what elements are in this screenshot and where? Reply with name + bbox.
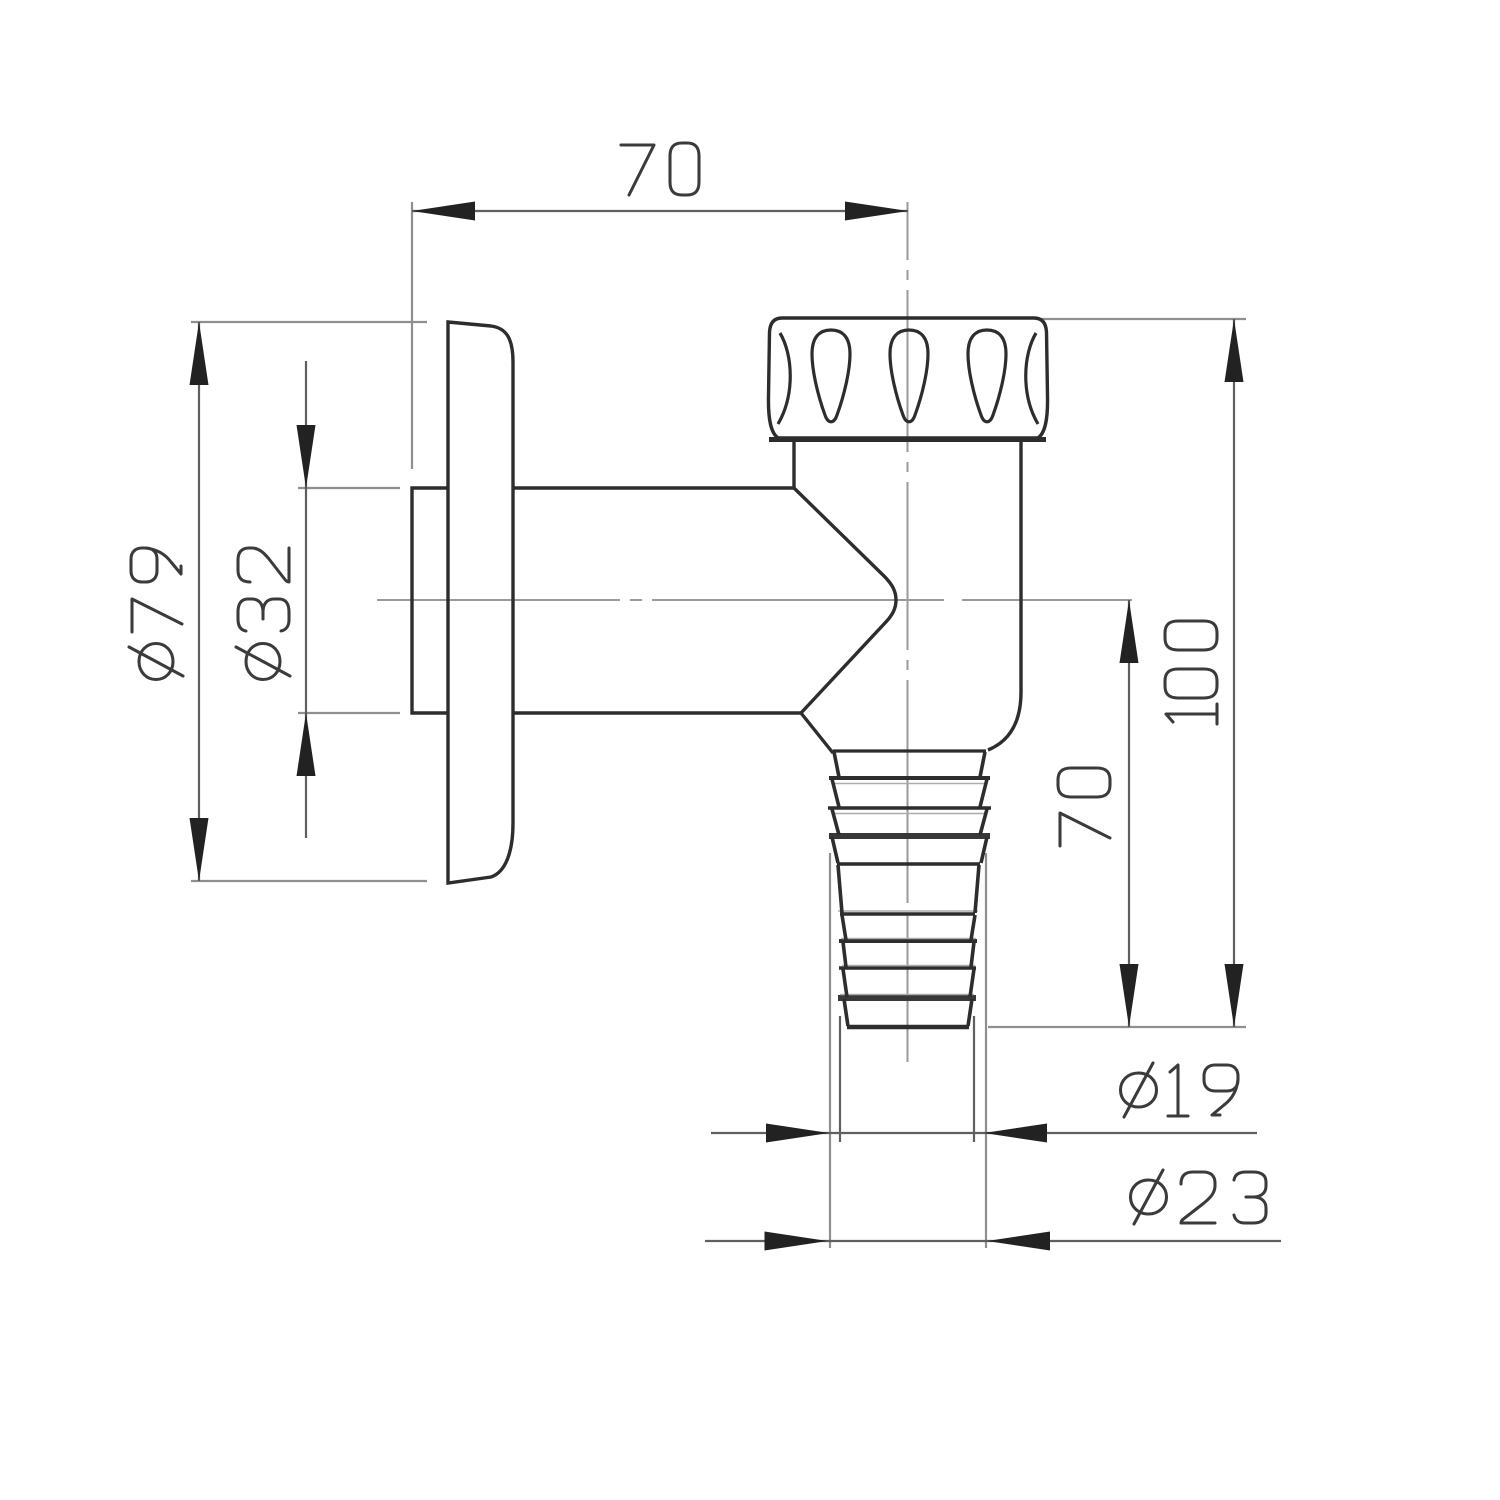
arrowhead 70 top left bbox=[412, 202, 475, 221]
arrowhead dia19 right bbox=[984, 1124, 1047, 1143]
arrowhead 70 top right bbox=[845, 202, 908, 221]
body left outline with nose bbox=[794, 488, 896, 713]
arrowhead 100 top bbox=[1225, 319, 1244, 382]
dimension text dia32 (left) bbox=[236, 548, 290, 680]
dimension text dia19 (bottom) bbox=[1121, 1063, 1239, 1117]
arrowhead dia19 left bbox=[766, 1124, 829, 1143]
barb ridge line y=968 bbox=[839, 966, 976, 969]
extension line: diameter 32 top bbox=[298, 487, 400, 489]
centerline vertical (tap axis) bbox=[907, 202, 909, 260]
wall flange (dia 79 plate) bbox=[448, 322, 513, 883]
arrowhead dia79 bottom bbox=[190, 818, 209, 881]
dimension text 70 (right) bbox=[1058, 768, 1110, 846]
extension line: diameter 79 top bbox=[191, 321, 427, 323]
barb ridge line y=941 bbox=[839, 939, 977, 943]
dimension line: 70 right bbox=[1128, 600, 1130, 1027]
barb ridge line y=864 bbox=[837, 862, 980, 866]
barb ridge line y=808 bbox=[828, 806, 991, 810]
cap knurl groove 3 bbox=[968, 330, 1006, 422]
cap knurl edge groove left bbox=[778, 333, 790, 424]
barb segment side walls 8 bbox=[843, 969, 847, 997]
arrowhead 100 bottom bbox=[1225, 964, 1244, 1027]
cap knurl groove 1 bbox=[812, 330, 850, 422]
barb ridge line y=1027 bbox=[847, 1025, 969, 1030]
dimension line: diameter 19 bbox=[711, 1132, 1257, 1134]
dimension text dia23 (bottom) bbox=[1131, 1170, 1267, 1224]
barb segment side walls 3 bbox=[832, 809, 839, 835]
arrowhead dia23 left bbox=[765, 1232, 828, 1251]
extension line: bottom of spout (100/70 dims) bbox=[988, 1026, 1246, 1028]
arrowhead dia32 bottom bbox=[297, 713, 316, 776]
barb segment side walls 2 bbox=[832, 779, 839, 807]
barb ridge line y=998 bbox=[838, 995, 976, 1001]
extension line: diameter 23 left bbox=[829, 853, 831, 1248]
body shoulder to spout bbox=[801, 713, 833, 753]
dimension line: diameter 79 bbox=[198, 322, 200, 881]
dimension line: diameter 23 bbox=[705, 1240, 1281, 1242]
barb segment side walls 6 bbox=[842, 915, 846, 940]
wall pipe stub (dia 32) bbox=[412, 488, 448, 713]
arrowhead 70right top bbox=[1120, 600, 1139, 663]
barb segment side walls 9 bbox=[844, 999, 848, 1026]
extension line: 100 dim top (cap top) bbox=[1036, 318, 1246, 320]
arrowhead dia23 right bbox=[987, 1232, 1050, 1251]
extension line: diameter 23 right bbox=[985, 853, 987, 1248]
dimension line: diameter 32 bbox=[305, 361, 307, 838]
barb groove highlight lines bbox=[833, 783, 985, 785]
knurled cap outline bbox=[768, 318, 1047, 438]
pipe top edge bbox=[513, 486, 794, 489]
barb ridge line y=836 bbox=[829, 833, 990, 839]
dimension text 70 (top) bbox=[621, 143, 699, 195]
dimension line: 100 right bbox=[1233, 319, 1235, 1027]
body neck left bbox=[792, 440, 795, 489]
barb ridge line y=778 bbox=[829, 776, 990, 780]
extension line: top 70 dim, left (pipe stub edge) bbox=[411, 202, 413, 469]
dimension text dia79 (left) bbox=[129, 548, 183, 680]
extension line: diameter 19 left bbox=[839, 1016, 841, 1142]
barb ridge line y=914 bbox=[840, 912, 975, 915]
barb segment side walls 7 bbox=[843, 942, 846, 967]
dimension text 100 (right) bbox=[1165, 621, 1217, 724]
body right outline bbox=[988, 440, 1021, 750]
centerline horizontal (pipe axis) bbox=[377, 599, 620, 601]
barb ridge line y=751 bbox=[833, 749, 986, 752]
extension line: diameter 79 bottom bbox=[191, 880, 427, 882]
barb segment side walls 4 bbox=[832, 837, 838, 863]
cap knurl edge groove right bbox=[1026, 333, 1038, 424]
arrowhead dia32 top bbox=[297, 425, 316, 488]
barb segment side walls 5 bbox=[838, 865, 842, 913]
dimension line: 70 top bbox=[412, 210, 908, 212]
pipe bottom edge bbox=[513, 711, 801, 714]
barb segment side walls 1 bbox=[834, 752, 839, 777]
extension line: diameter 32 bottom bbox=[298, 712, 400, 714]
extension line: diameter 19 right bbox=[973, 1016, 975, 1142]
arrowhead dia79 top bbox=[190, 322, 209, 385]
cap knurl groove 2 bbox=[890, 330, 928, 422]
arrowhead 70right bottom bbox=[1120, 964, 1139, 1027]
cap bottom thick edge bbox=[769, 437, 1046, 442]
